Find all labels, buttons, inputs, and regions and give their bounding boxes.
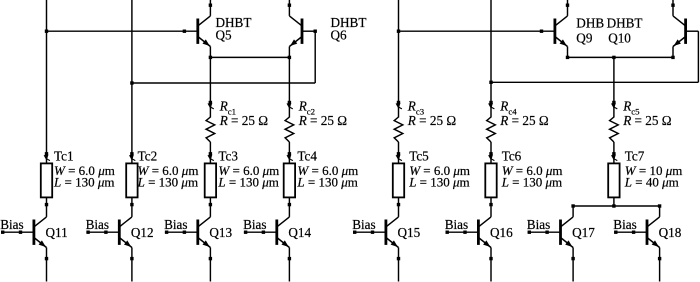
svg-text:L = 130 μm: L = 130 μm [501, 174, 562, 189]
svg-text:Tc1: Tc1 [54, 148, 74, 163]
node Tc4 top [288, 152, 291, 155]
node H2-V2 junction [130, 81, 133, 84]
transmission line Tc1 [41, 163, 52, 197]
svg-text:Tc6: Tc6 [502, 148, 522, 163]
transistor Q13 [196, 220, 199, 245]
transistor Q10 [684, 19, 687, 44]
node Q13 emitter [209, 257, 212, 260]
svg-text:R = 25 Ω: R = 25 Ω [298, 113, 348, 128]
node Tc7 top [612, 152, 615, 155]
transistor Q9 [554, 19, 557, 44]
node resistor Rc5 top [612, 101, 615, 104]
svg-text:Q6: Q6 [331, 27, 348, 42]
node H7 center [612, 204, 615, 207]
node Q6 collector stub [288, 4, 291, 7]
node Tc1 top [45, 152, 48, 155]
wire H6 (Q10 base feed) [491, 81, 698, 83]
svg-text:L = 130 μm: L = 130 μm [408, 174, 469, 189]
node Q18 bias lead end [614, 231, 617, 234]
node Q16 emitter [489, 257, 492, 260]
wire Tc2 bottom lead [131, 197, 133, 217]
node resistor Rc1 top [209, 101, 212, 104]
svg-text:Q11: Q11 [46, 225, 68, 240]
wire V3 (third supply rail) [398, 0, 400, 103]
node Tc6 top [489, 152, 492, 155]
node H5 center tap [612, 56, 615, 59]
node Q16 bias lead end [446, 231, 449, 234]
current arrow into Rc5 [611, 103, 616, 109]
current arrow into Rc1 [208, 103, 213, 109]
wire Rc2 lower lead [288, 142, 290, 154]
wire Q12 emitter drop [131, 248, 133, 282]
node Q12 emitter [130, 257, 133, 260]
wire H4 (Q9 base feed) [399, 30, 555, 32]
node below Tc3 [209, 203, 212, 206]
wire Tc4 bottom lead [288, 197, 290, 217]
node H6-V4 junction [489, 81, 492, 84]
node Q10 collector stub [671, 4, 674, 7]
node Q9 collector stub [566, 4, 569, 7]
node resistor Rc4 top [489, 101, 492, 104]
wire Rc3 lower lead [398, 142, 400, 154]
wire Q15 emitter drop [398, 248, 400, 282]
wire Tc1 bottom lead [46, 197, 48, 217]
node Q15 bias lead mid [371, 231, 374, 234]
current arrow into Rc3 [396, 103, 401, 109]
wire Q17 emitter drop [572, 248, 574, 282]
svg-text:Q15: Q15 [398, 225, 421, 240]
node below Tc1 [45, 203, 48, 206]
node resistor Rc3 top [397, 101, 400, 104]
wire Tc5 bottom lead [398, 197, 400, 217]
wire Q14 emitter drop [288, 248, 290, 282]
transistor Q12 [118, 220, 121, 245]
wire Q16 emitter drop [490, 248, 492, 282]
svg-text:R = 25 Ω: R = 25 Ω [407, 113, 457, 128]
node Q12 bias lead mid [104, 231, 107, 234]
resistor Rc4 [487, 117, 496, 142]
wire H3 (Q5/Q6 emitter tie) [210, 56, 289, 58]
wire Tc6 bottom lead [490, 197, 492, 217]
node below Tc6 [489, 203, 492, 206]
transistor Q16 [477, 220, 480, 245]
node H7 right end [658, 204, 661, 207]
wire Rc4 upper lead [490, 105, 492, 118]
svg-text:Bias: Bias [164, 217, 187, 232]
node Q15 emitter [397, 257, 400, 260]
svg-text:Q14: Q14 [288, 225, 311, 240]
current arrow into Tc6 [488, 155, 493, 161]
svg-text:Bias: Bias [352, 217, 375, 232]
svg-text:Bias: Bias [613, 217, 636, 232]
svg-text:DHBT: DHBT [607, 16, 643, 31]
svg-text:L = 130 μm: L = 130 μm [296, 174, 357, 189]
wire Rc5 feed drop [613, 57, 615, 102]
transistor Q14 [275, 220, 278, 245]
wire Q18 collector riser [659, 206, 661, 217]
transmission line Tc3 [205, 163, 216, 197]
wire Q10 collector stub [672, 0, 674, 16]
wire Q9 collector stub [567, 0, 569, 16]
wire Tc6 arrow-to-box [490, 159, 492, 164]
svg-text:Bias: Bias [86, 217, 109, 232]
node H4-V3 junction [397, 30, 400, 33]
node Q14 emitter [288, 257, 291, 260]
transistor Q5 [196, 19, 199, 44]
svg-text:R = 25 Ω: R = 25 Ω [219, 113, 269, 128]
current arrow into Tc1 [44, 155, 49, 161]
wire Rc5 lower lead [613, 142, 615, 154]
wire V1 (left supply rail) [46, 0, 48, 154]
wire Q6 emitter drop [288, 47, 290, 58]
current arrow into Tc7 [611, 155, 616, 161]
node Q17 bias lead mid [545, 231, 548, 234]
wire Rc3 upper lead [398, 105, 400, 118]
current arrow into Tc5 [396, 155, 401, 161]
transistor Q18 [646, 220, 649, 245]
node Q17 emitter [571, 257, 574, 260]
transmission line Tc2 [126, 163, 137, 197]
transmission line Tc7 [608, 163, 619, 197]
resistor Rc2 [285, 117, 294, 142]
svg-text:Tc4: Tc4 [297, 148, 317, 163]
resistor Rc3 [394, 117, 403, 142]
node Q15 bias lead end [353, 231, 356, 234]
svg-text:L = 130 μm: L = 130 μm [137, 174, 198, 189]
wire Rc1 lower lead [209, 142, 211, 154]
svg-text:Bias: Bias [0, 217, 23, 232]
node H5 right end [671, 56, 674, 59]
node Tc3 top [209, 152, 212, 155]
wire Q10 emitter drop [672, 47, 674, 58]
node Q17 bias lead end [528, 231, 531, 234]
transistor Q11 [33, 220, 36, 245]
node H7 left end [571, 204, 574, 207]
node below Tc5 [397, 203, 400, 206]
wire Q6 base riser [314, 31, 316, 83]
transistor Q6 [301, 19, 304, 44]
svg-text:Tc5: Tc5 [409, 148, 429, 163]
wire Q9 emitter drop [567, 47, 569, 58]
transmission line Tc6 [485, 163, 496, 197]
node H5 left end [566, 56, 569, 59]
svg-text:Tc2: Tc2 [138, 148, 158, 163]
node H3 left end [209, 56, 212, 59]
node Q11 bias lead mid [19, 231, 22, 234]
node below Tc4 [288, 203, 291, 206]
transistor Q15 [384, 220, 387, 245]
svg-text:Q5: Q5 [216, 27, 233, 42]
svg-text:Q12: Q12 [131, 225, 154, 240]
wire H5 (Q9/Q10 emitter tie) [568, 56, 674, 58]
svg-text:Q16: Q16 [490, 225, 513, 240]
wire Q11 emitter drop [46, 248, 48, 282]
svg-text:Q13: Q13 [209, 225, 232, 240]
wire Rc1 upper lead [209, 105, 211, 118]
wire Tc7 bottom lead [613, 197, 615, 206]
wire Rc2 feed drop [288, 57, 290, 102]
transmission line Tc5 [393, 163, 404, 197]
current arrow into Rc4 [488, 103, 493, 109]
wire V4 (fourth supply rail) [490, 0, 492, 103]
node on Q9 base lead [540, 30, 543, 33]
transistor Q17 [559, 220, 562, 245]
wire Tc3 bottom lead [209, 197, 211, 217]
svg-text:L = 130 μm: L = 130 μm [217, 174, 278, 189]
current arrow into Tc4 [287, 155, 292, 161]
node Q18 emitter [658, 257, 661, 260]
wire Tc2 arrow-to-box [131, 159, 133, 164]
node Q14 bias lead mid [262, 231, 265, 234]
node Q18 bias lead mid [632, 231, 635, 234]
node Q13 bias lead mid [183, 231, 186, 234]
node resistor Rc2 top [288, 101, 291, 104]
svg-text:L = 130 μm: L = 130 μm [53, 174, 114, 189]
svg-text:Tc3: Tc3 [218, 148, 238, 163]
svg-text:R = 25 Ω: R = 25 Ω [622, 113, 672, 128]
wire Rc2 upper lead [288, 105, 290, 118]
resistor Rc5 [610, 117, 619, 142]
node Q16 bias lead mid [463, 231, 466, 234]
wire Q13 emitter drop [209, 248, 211, 282]
current arrow into Rc2 [287, 103, 292, 109]
wire Tc7 arrow-to-box [613, 159, 615, 164]
resistor Rc1 [206, 117, 215, 142]
node Q12 bias lead end [86, 231, 89, 234]
svg-text:DHB: DHB [576, 16, 604, 31]
wire Q18 emitter drop [659, 248, 661, 282]
node Q13 bias lead end [165, 231, 168, 234]
svg-text:Bias: Bias [243, 217, 266, 232]
wire Tc5 arrow-to-box [398, 159, 400, 164]
wire Q6 collector stub [288, 0, 290, 16]
svg-text:Q17: Q17 [572, 225, 595, 240]
node Q6 base corner [314, 30, 317, 33]
svg-text:Tc7: Tc7 [625, 148, 645, 163]
node Q14 bias lead end [244, 231, 247, 234]
node below Tc2 [130, 203, 133, 206]
wire Q5 emitter drop [209, 47, 211, 58]
wire H1 (Q5 base feed) [47, 30, 198, 32]
wire Q10 base riser [697, 31, 699, 82]
svg-text:R = 25 Ω: R = 25 Ω [499, 113, 549, 128]
node Tc2 top [130, 152, 133, 155]
svg-text:L = 40 μm: L = 40 μm [624, 174, 679, 189]
wire H2 (Q6 base feed) [132, 82, 315, 84]
wire Tc3 arrow-to-box [209, 159, 211, 164]
wire Rc4 lower lead [490, 142, 492, 154]
svg-text:Bias: Bias [527, 217, 550, 232]
svg-text:Bias: Bias [445, 217, 468, 232]
wire Rc1 feed drop [209, 57, 211, 102]
current arrow into Tc3 [208, 155, 213, 161]
node H3 right end [288, 56, 291, 59]
svg-text:Q10: Q10 [608, 31, 631, 46]
node Q5 collector stub [209, 4, 212, 7]
wire Q5 collector stub [209, 0, 211, 16]
node Tc5 top [397, 152, 400, 155]
wire V2 (second supply rail) [131, 0, 133, 154]
node H1-V1 junction [45, 30, 48, 33]
wire Q17 collector riser [572, 206, 574, 217]
node Q11 bias lead end [1, 231, 4, 234]
svg-text:Q18: Q18 [659, 225, 682, 240]
node on Q5 base lead [183, 30, 186, 33]
current arrow into Tc2 [129, 155, 134, 161]
svg-text:Q9: Q9 [576, 31, 593, 46]
wire Rc5 upper lead [613, 105, 615, 118]
node Q11 emitter [45, 257, 48, 260]
wire Tc4 arrow-to-box [288, 159, 290, 164]
wire Tc1 arrow-to-box [46, 159, 48, 164]
transmission line Tc4 [284, 163, 295, 197]
wire H7 (Q17/Q18 collector tie) [573, 205, 660, 207]
